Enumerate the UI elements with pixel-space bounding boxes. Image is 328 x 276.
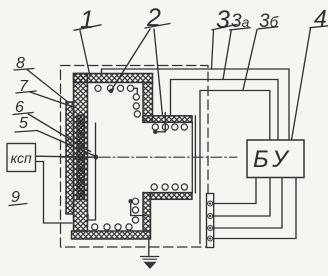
winding 2: bottom row circles — [92, 224, 133, 230]
BU box (control unit) — [247, 140, 304, 178]
leader line label 6 — [28, 114, 90, 152]
winding 2: mid row circles — [152, 124, 187, 130]
winding 2: bottom column circles — [132, 198, 138, 223]
underline label 2 — [145, 24, 170, 29]
svg-text:БУ: БУ — [253, 146, 293, 173]
wire KSP lower to wall — [36, 162, 73, 224]
svg-text:3а: 3а — [231, 11, 250, 32]
inner electrode 6 (dense hatched strip) — [77, 115, 85, 200]
underline label 3 — [212, 24, 237, 30]
underline label 8 — [14, 69, 34, 71]
leader line label 3 — [212, 31, 214, 69]
junction dot bottom tap — [128, 199, 133, 204]
probe 5 (tube along wall) — [88, 123, 96, 220]
underline label 9 — [9, 204, 27, 206]
bottom-right band (chamber wall, hatched) — [151, 193, 193, 200]
leader line label 3a — [223, 30, 231, 80]
wire loop 3b (inner) to control unit — [200, 91, 270, 244]
svg-text:5: 5 — [19, 115, 28, 132]
step column (chamber wall, hatched) — [143, 83, 153, 123]
outer screen 8 (hatched layer) — [66, 102, 74, 214]
leader line label 8 — [27, 70, 69, 103]
underline label 5 — [15, 131, 37, 133]
left wall (chamber wall, hatched) — [74, 74, 88, 232]
lower band (chamber wall, hatched) — [143, 116, 192, 123]
tap wire at mid winding — [155, 113, 165, 132]
right wall outer line — [194, 116, 196, 193]
dashed enclosure (housing) — [61, 66, 209, 248]
leader line label 7 — [30, 92, 72, 107]
junction dot mid tap — [153, 130, 158, 135]
wire loop 3a (middle) to control unit — [171, 80, 279, 141]
ground symbol — [141, 257, 159, 270]
winding 2: step curve circles — [133, 94, 140, 117]
svg-text:6: 6 — [15, 99, 24, 116]
wire terminal 4 to BU — [214, 178, 296, 239]
wire terminal 3 to BU — [214, 178, 282, 229]
winding 2: lower-right row circles — [151, 184, 187, 190]
svg-text:9: 9 — [11, 189, 20, 206]
junction dot probe — [94, 155, 99, 160]
terminal block — [207, 194, 214, 248]
wire terminal 2 to BU — [214, 178, 270, 217]
right wall inner line — [191, 122, 193, 192]
svg-text:1: 1 — [80, 6, 94, 34]
leader line label 3b — [243, 30, 257, 91]
underline label 3b — [258, 27, 278, 29]
underline label 1 — [74, 25, 101, 31]
winding 2: top row circles — [95, 85, 134, 91]
bottom band (chamber wall, hatched) — [72, 231, 151, 239]
svg-text:7: 7 — [19, 78, 29, 95]
svg-text:2: 2 — [146, 4, 161, 32]
svg-text:4: 4 — [314, 5, 327, 31]
leader line label 1 — [80, 31, 90, 77]
underline label 4 — [310, 26, 328, 28]
underline label 7 — [16, 91, 36, 93]
centre line (dash-dot axis) — [62, 156, 237, 158]
leader line label 5 — [37, 131, 96, 157]
wire loop 3 (outer) to control unit — [102, 69, 290, 140]
bottom-right column (chamber wall, hatched) — [143, 193, 151, 231]
svg-text:3б: 3б — [259, 11, 279, 32]
wire KSP to probe — [36, 156, 97, 157]
terminal circles — [208, 201, 213, 241]
underline label 3a — [230, 28, 251, 30]
winding connector tick — [135, 88, 138, 93]
top band (chamber wall, hatched) — [74, 74, 153, 83]
KSP box — [7, 144, 36, 172]
leader line label 4 — [292, 28, 311, 140]
svg-text:3: 3 — [216, 6, 230, 34]
underline label 6 — [13, 113, 33, 115]
junction dot top tap — [109, 89, 113, 93]
leader line label 2 fork B — [154, 29, 163, 116]
ground stem — [148, 239, 150, 257]
tap wire at bottom winding to ground — [131, 201, 146, 215]
leader line label 2 fork A — [112, 29, 151, 90]
wire terminal 1 to BU — [214, 178, 256, 204]
svg-text:8: 8 — [16, 55, 25, 72]
svg-text:ксп: ксп — [11, 150, 32, 166]
